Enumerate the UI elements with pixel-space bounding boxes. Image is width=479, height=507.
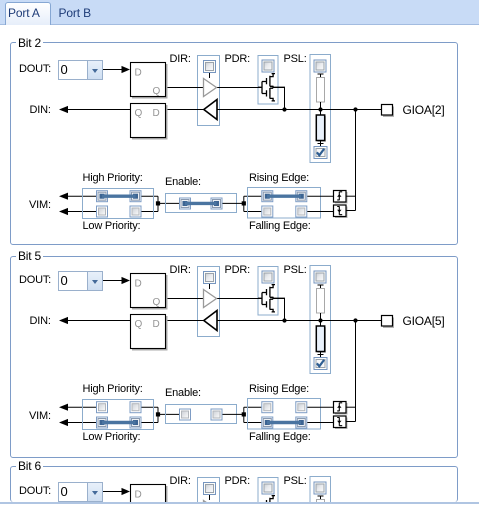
svg-text:Q: Q	[135, 108, 143, 119]
svg-text:D: D	[135, 278, 142, 289]
svg-text:D: D	[153, 108, 160, 119]
svg-text:Q: Q	[153, 86, 161, 97]
svg-text:Q: Q	[153, 297, 161, 308]
svg-text:D: D	[135, 489, 142, 500]
svg-text:D: D	[153, 319, 160, 330]
svg-text:Q: Q	[135, 319, 143, 330]
svg-text:D: D	[135, 67, 142, 78]
